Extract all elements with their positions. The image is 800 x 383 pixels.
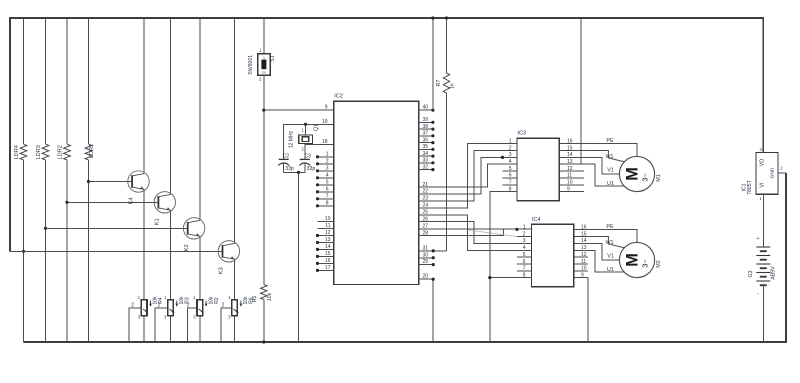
svg-text:SW9001: SW9001: [248, 55, 254, 75]
wire C2 bottom lead: [283, 164, 285, 173]
svg-text:14: 14: [325, 244, 331, 250]
wire S1 top: [263, 18, 265, 54]
svg-text:S1: S1: [270, 55, 276, 61]
svg-text:PE: PE: [606, 138, 614, 144]
wire R4 wiper-low column: [143, 316, 145, 342]
wire V1 to M2: [588, 243, 620, 260]
svg-text:K1: K1: [155, 218, 161, 225]
svg-text:2: 2: [509, 145, 512, 151]
wire C3 bottom lead: [304, 164, 306, 173]
pin 17 stub IC2: [318, 269, 334, 271]
crystal Q1 12MHz: [299, 135, 313, 144]
regulator IC1 7805T body: [756, 152, 778, 194]
transistor K1: [154, 192, 175, 213]
svg-text:32: 32: [423, 164, 429, 170]
svg-text:1: 1: [193, 295, 196, 300]
wire IC2 pin 28 riser: [419, 229, 504, 235]
pin 3 stub IC2: [318, 170, 334, 172]
svg-text:14: 14: [567, 152, 573, 158]
svg-text:15: 15: [581, 231, 587, 237]
svg-text:AB9V: AB9V: [771, 266, 777, 280]
resistor LDR3: [42, 144, 49, 160]
svg-text:16: 16: [581, 225, 587, 231]
wire R2 wiper-low column: [199, 316, 201, 342]
battery G3 AB9V: [756, 247, 770, 285]
svg-text:3: 3: [138, 315, 141, 320]
motor M2: [619, 242, 654, 277]
node crystal pin1 junction: [304, 123, 307, 126]
wire crystal Q1 pin 1: [305, 124, 307, 135]
wire LDR4 column: [23, 18, 25, 144]
svg-text:1: 1: [759, 196, 762, 201]
wire IC2 pin 23 to IC3 pin 2: [419, 151, 517, 201]
pin 37 stub IC2: [419, 135, 433, 137]
wire IC2 pin 9 net: [264, 109, 334, 111]
pin 33 stub IC2: [419, 162, 433, 164]
svg-text:10k: 10k: [267, 292, 273, 301]
wire bottom ground rail: [24, 173, 787, 342]
svg-text:1: 1: [164, 295, 167, 300]
pin 36 stub IC2: [419, 142, 433, 144]
svg-text:M: M: [623, 253, 641, 267]
pin 6 stub IC2: [318, 191, 334, 193]
resistor R5 10k: [261, 285, 267, 300]
pin 11 stub IC4: [574, 263, 588, 265]
svg-text:2: 2: [326, 159, 329, 165]
pin 1 stub IC2: [318, 156, 334, 158]
wire K4 emitter column: [143, 189, 145, 300]
potentiometer R3: [168, 300, 179, 316]
wire R6 wiper-low column: [234, 316, 236, 342]
switch S1 SW9001: [258, 54, 270, 76]
pin 14 stub IC4: [574, 242, 588, 244]
svg-text:30: 30: [423, 252, 429, 258]
svg-text:2: 2: [158, 303, 161, 309]
svg-text:U1: U1: [607, 181, 614, 187]
pin 12 stub IC2: [318, 235, 334, 237]
svg-text:1: 1: [259, 48, 262, 53]
svg-text:38: 38: [423, 124, 429, 130]
capacitor C2 33p: [278, 159, 289, 165]
potentiometer R4: [141, 300, 152, 316]
svg-text:4: 4: [523, 245, 526, 251]
svg-text:13: 13: [325, 237, 331, 243]
svg-text:3: 3: [164, 315, 167, 320]
svg-text:3: 3: [326, 166, 329, 172]
svg-text:3: 3: [759, 147, 762, 152]
svg-text:GND: GND: [770, 167, 776, 178]
pin 10 stub IC2: [318, 221, 334, 223]
wire VCC tie column: [580, 18, 582, 164]
wire R4 terminal-2 to ground: [129, 308, 142, 342]
node IC4 pin 1 junction: [515, 228, 518, 231]
svg-text:1k: 1k: [449, 83, 455, 89]
pin 13 stub IC3: [559, 163, 584, 165]
svg-text:13: 13: [581, 245, 587, 251]
svg-text:6: 6: [523, 259, 526, 265]
wire LDR2 column: [66, 18, 68, 144]
pin 5 stub IC3: [503, 170, 517, 172]
resistor LDR2: [64, 144, 71, 160]
wire crystal pin 2 stub: [305, 144, 307, 145]
pin 11 stub IC2: [318, 228, 334, 230]
wire K3 collector column: [234, 18, 236, 243]
svg-text:C3: C3: [304, 153, 311, 159]
svg-text:27: 27: [423, 223, 429, 229]
pin 35 stub IC2: [419, 148, 433, 150]
wire IC2 pin 25 to IC4 pin 4: [419, 215, 532, 251]
node IC4 pin 8 junction: [488, 276, 491, 279]
wire R3 wiper-low column: [170, 316, 172, 342]
svg-text:12 MHz: 12 MHz: [288, 130, 294, 148]
svg-text:3: 3: [523, 238, 526, 244]
wire net tie to IC4 pin 2: [467, 230, 517, 237]
svg-text:M1: M1: [656, 174, 662, 182]
svg-text:W1: W1: [605, 154, 613, 160]
svg-text:7: 7: [523, 266, 526, 272]
pin 10 stub IC4: [574, 270, 588, 272]
svg-text:10: 10: [581, 266, 587, 272]
svg-text:11: 11: [567, 173, 572, 179]
pin 16 stub IC4: [574, 229, 588, 231]
node pin 29 junction: [432, 263, 435, 266]
svg-text:4: 4: [326, 173, 329, 179]
pin 14 stub IC3: [559, 156, 584, 158]
svg-text:R5: R5: [252, 296, 258, 303]
svg-text:19: 19: [322, 119, 328, 125]
wire R2 terminal-2 to ground: [188, 308, 198, 342]
svg-text:5: 5: [326, 180, 329, 186]
wire IC1 GND to ground rail: [778, 172, 786, 174]
wire S1 to R5 and IC2 pin 9: [263, 75, 265, 284]
motor M1: [619, 156, 654, 191]
svg-text:VO: VO: [760, 159, 766, 167]
pin 2 stub IC2: [318, 163, 334, 165]
wire IC1 VI to battery: [762, 194, 764, 247]
svg-text:6: 6: [326, 187, 329, 193]
pin 15 stub IC3: [559, 150, 584, 152]
svg-text:20: 20: [423, 274, 429, 280]
wire K1 collector column: [170, 18, 172, 194]
wire V1 to M1: [584, 157, 620, 174]
wire K2 base net: [46, 227, 189, 229]
svg-text:K4: K4: [128, 197, 134, 205]
svg-text:LDR1: LDR1: [89, 144, 95, 158]
node LDR3 junction: [44, 227, 47, 230]
wire IC3 pin 8 to ground: [490, 192, 517, 342]
pin 6 stub IC4: [517, 263, 531, 265]
svg-text:ON: ON: [262, 71, 267, 75]
wire capacitor ground net: [284, 171, 305, 173]
svg-text:1: 1: [509, 139, 512, 145]
svg-text:U1: U1: [607, 267, 614, 273]
node VCC rail junction B: [445, 16, 448, 19]
svg-text:R2: R2: [214, 297, 220, 304]
transistor K3: [218, 241, 239, 262]
svg-text:M: M: [623, 167, 641, 181]
svg-text:34: 34: [423, 151, 429, 157]
svg-text:3: 3: [509, 152, 512, 158]
pin 29 stub IC2: [419, 264, 434, 266]
svg-text:10: 10: [325, 216, 331, 222]
wire battery to ground rail: [762, 285, 764, 342]
svg-text:+: +: [756, 236, 759, 242]
wire IC2 pin 20 to ground rail: [432, 279, 434, 342]
pin 7 stub IC4: [517, 270, 531, 272]
potentiometer R6: [232, 300, 243, 316]
svg-text:9: 9: [581, 272, 584, 278]
svg-text:M2: M2: [656, 260, 662, 268]
svg-text:IC2: IC2: [334, 93, 343, 99]
node pin 30 junction: [432, 256, 435, 259]
wire K3 emitter column: [234, 259, 236, 300]
svg-text:36: 36: [423, 137, 429, 143]
svg-text:1: 1: [228, 295, 231, 300]
svg-text:11: 11: [581, 259, 586, 265]
wire K2 collector column: [199, 18, 201, 220]
node capacitor ground junction: [297, 171, 300, 174]
wire K1 base net: [67, 201, 159, 203]
wire K2 emitter column: [199, 236, 201, 300]
svg-text:7805T: 7805T: [747, 179, 753, 195]
wire top +V rail: [10, 18, 763, 251]
svg-text:K2: K2: [184, 244, 190, 251]
svg-text:40: 40: [423, 105, 429, 111]
svg-text:LDR3: LDR3: [36, 145, 42, 159]
wire PE to M1: [584, 144, 637, 158]
wire capacitors to ground rail: [298, 172, 300, 342]
wire IC2 pin 26 to IC4 pin 3: [419, 222, 532, 244]
resistor R7: [443, 73, 449, 93]
pin 30 stub IC2: [419, 257, 434, 259]
svg-text:C2: C2: [282, 153, 289, 159]
svg-text:2: 2: [259, 77, 262, 82]
svg-text:12: 12: [325, 230, 331, 236]
resistor LDR4: [20, 144, 27, 160]
pin 12 stub IC4: [574, 256, 588, 258]
svg-text:14: 14: [581, 238, 587, 244]
svg-text:15: 15: [567, 145, 573, 151]
pin 9 stub IC3: [559, 191, 584, 193]
wire IC4 pin 9 to ground: [587, 278, 589, 342]
transistor K2: [183, 218, 204, 239]
svg-text:1: 1: [263, 56, 265, 60]
svg-text:18: 18: [322, 139, 328, 145]
svg-text:9: 9: [325, 105, 328, 111]
transistor K4: [128, 171, 149, 192]
svg-text:IC4: IC4: [532, 217, 541, 223]
svg-text:2: 2: [302, 146, 305, 151]
wire IC2 pin 21 to IC3 pin 4: [419, 164, 517, 187]
pin 13 stub IC4: [574, 249, 588, 251]
svg-text:5: 5: [523, 252, 526, 258]
pin 34 stub IC2: [419, 155, 433, 157]
svg-text:VI: VI: [760, 183, 766, 188]
node LDR2 junction: [65, 201, 68, 204]
node pin 20 junction: [432, 278, 435, 281]
IC U2 microcontroller IC2 body: [334, 101, 419, 284]
svg-text:6: 6: [509, 173, 512, 179]
svg-text:IC3: IC3: [517, 131, 526, 137]
svg-text:10: 10: [567, 180, 573, 186]
svg-text:W1: W1: [605, 240, 613, 246]
svg-text:1: 1: [138, 295, 141, 300]
wire IC2 pin 18 net: [305, 145, 334, 160]
svg-text:3: 3: [193, 315, 196, 320]
svg-text:1: 1: [523, 225, 526, 231]
pin 11 stub IC3: [559, 177, 584, 179]
wire IC4 pin 8 stub: [490, 277, 532, 279]
svg-text:3~: 3~: [640, 173, 649, 182]
node R5 ground junction: [262, 340, 265, 343]
svg-text:2: 2: [523, 231, 526, 237]
wire IC2 pin 24 to IC3 pin 1: [419, 144, 517, 208]
svg-text:7: 7: [326, 194, 329, 200]
svg-text:5: 5: [509, 166, 512, 172]
wire R3 terminal-2 to ground: [155, 308, 168, 342]
svg-text:11: 11: [325, 223, 330, 229]
svg-text:V1: V1: [607, 167, 614, 173]
wire PE to M2: [588, 230, 637, 244]
node S1 output junction: [262, 109, 265, 112]
svg-text:39: 39: [423, 117, 429, 123]
svg-text:PE: PE: [606, 224, 614, 230]
node pin 31 junction: [432, 249, 435, 252]
wire K3 base net: [10, 250, 223, 252]
pin 13 stub IC2: [318, 242, 334, 244]
pin 14 stub IC2: [318, 248, 334, 250]
node VCC rail junction A: [431, 16, 434, 19]
svg-text:G3: G3: [748, 270, 754, 277]
pin 12 stub IC3: [559, 170, 584, 172]
wire K1 emitter column: [170, 210, 172, 300]
pin 40 stub IC2: [419, 109, 433, 111]
wire R5 to ground rail: [263, 300, 265, 343]
svg-text:2: 2: [222, 303, 225, 309]
svg-text:LDR2: LDR2: [57, 145, 63, 159]
pin 6 stub IC3: [503, 177, 517, 179]
pin 16 stub IC3: [559, 143, 584, 145]
svg-text:1: 1: [326, 152, 329, 158]
wire R7 1k column: [446, 18, 448, 73]
pin 4 stub IC2: [318, 177, 334, 179]
capacitor C3 33p: [299, 159, 310, 165]
IC driver IC4 body: [532, 224, 574, 287]
pin 15 stub IC4: [574, 236, 588, 238]
node pin 40 junction: [431, 109, 434, 112]
wire K4 base net: [89, 181, 133, 183]
svg-text:4: 4: [509, 159, 512, 165]
pin 20 stub IC2: [419, 278, 434, 280]
svg-text:35: 35: [423, 144, 429, 150]
svg-text:2: 2: [131, 303, 134, 309]
svg-text:33p: 33p: [285, 166, 294, 172]
wire W1 to M1: [584, 151, 625, 163]
svg-text:12: 12: [581, 252, 587, 258]
svg-text:37: 37: [423, 131, 429, 137]
svg-text:8: 8: [326, 201, 329, 207]
svg-text:-: -: [757, 291, 759, 297]
wire W1 to M2: [588, 237, 625, 248]
wire LDR3 column: [45, 18, 47, 144]
wire IC2 pin 22 to IC3 pin 3: [419, 157, 517, 194]
IC driver IC3 body: [517, 138, 559, 201]
wire LDR1 column: [88, 18, 90, 144]
pin 16 stub IC2: [318, 262, 334, 264]
svg-text:R7: R7: [436, 80, 442, 87]
wire VCC to pin 40: [432, 18, 434, 110]
wire IC4 pin 2 stub: [517, 236, 532, 238]
pin 8 stub IC2: [318, 205, 334, 207]
svg-text:K3: K3: [219, 267, 225, 274]
svg-text:13: 13: [567, 159, 573, 165]
svg-text:29: 29: [423, 259, 429, 265]
svg-text:3: 3: [228, 315, 231, 320]
wire U1 to M1: [584, 164, 625, 186]
wire K4 collector column: [143, 18, 145, 174]
wire IC2 pin 19 net: [284, 124, 334, 159]
svg-text:12: 12: [567, 166, 573, 172]
svg-text:7: 7: [509, 180, 512, 186]
wire IC2 pin 27 to IC4 pin 1: [419, 228, 532, 230]
svg-text:16: 16: [567, 139, 573, 145]
potentiometer R2: [197, 300, 208, 316]
node LDR1 junction: [87, 180, 90, 183]
svg-text:17: 17: [325, 265, 331, 271]
pin 5 stub IC4: [517, 256, 531, 258]
pin 10 stub IC3: [559, 184, 584, 186]
wire pin 31 to R7: [419, 250, 447, 252]
pin 39 stub IC2: [419, 121, 433, 123]
resistor LDR1: [85, 144, 92, 160]
svg-text:15: 15: [325, 251, 331, 257]
svg-text:2: 2: [187, 303, 190, 309]
pin 7 stub IC3: [503, 184, 517, 186]
node LDR4 junction: [22, 250, 25, 253]
pin 5 stub IC2: [318, 184, 334, 186]
svg-text:3~: 3~: [640, 259, 649, 268]
pin 32 stub IC2: [419, 169, 433, 171]
pin 9 stub IC4: [574, 277, 588, 279]
svg-text:1: 1: [302, 128, 305, 133]
svg-text:16: 16: [325, 258, 331, 264]
svg-text:LDR4: LDR4: [14, 145, 20, 159]
svg-text:9: 9: [567, 186, 570, 192]
pin 7 stub IC2: [318, 198, 334, 200]
pin 38 stub IC2: [419, 128, 433, 130]
svg-text:V1: V1: [607, 253, 614, 259]
wire U1 to M2: [588, 250, 625, 272]
svg-text:33p: 33p: [307, 166, 316, 172]
svg-text:Q1: Q1: [314, 124, 320, 131]
svg-text:2: 2: [780, 165, 783, 170]
pin 15 stub IC2: [318, 255, 334, 257]
node IC3 pin 3 junction: [501, 156, 504, 159]
wire R6 terminal-2 to ground: [221, 308, 232, 342]
svg-text:33: 33: [423, 158, 429, 164]
